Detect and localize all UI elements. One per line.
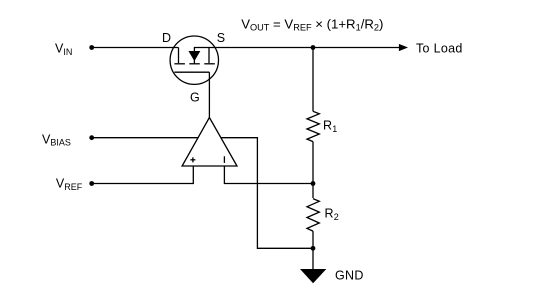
wire Q1 gate to op-amp output xyxy=(208,72,210,117)
svg-text:To Load: To Load xyxy=(416,42,463,56)
svg-text:BIAS: BIAS xyxy=(50,138,71,148)
resistor R2 xyxy=(307,199,319,232)
node VBIAS label xyxy=(42,132,71,147)
op-amp noninverting input plus sign xyxy=(190,157,195,162)
svg-text:IN: IN xyxy=(63,47,72,57)
node VIN terminal dot xyxy=(89,45,94,50)
wire R1 to feedback node xyxy=(312,142,314,184)
svg-text:R: R xyxy=(323,119,332,133)
wire VREF to op-amp noninverting input xyxy=(92,166,194,184)
op-amp U1 xyxy=(182,118,237,167)
wire VOUT node to R1 xyxy=(312,48,314,112)
svg-text:R: R xyxy=(325,207,334,221)
wire Q1 source to VOUT node xyxy=(209,47,313,49)
node VREF terminal dot xyxy=(89,181,94,186)
node VREF label xyxy=(56,177,83,192)
svg-text:S: S xyxy=(217,31,225,45)
wire VIN to Q1 drain xyxy=(92,47,179,49)
svg-text:1: 1 xyxy=(332,124,337,134)
wire op-amp ground pin to GND node xyxy=(221,138,313,249)
svg-text:REF: REF xyxy=(64,182,83,192)
arrowhead to load xyxy=(399,44,408,51)
node feedback junction dot xyxy=(311,181,316,186)
transistor Q1 PMOS pass FET xyxy=(170,36,218,84)
wire VBIAS to op-amp supply pin xyxy=(92,137,198,139)
ground xyxy=(300,269,326,283)
svg-text:GND: GND xyxy=(335,269,364,283)
svg-text:2: 2 xyxy=(334,212,339,222)
wire VOUT node to load arrow xyxy=(313,47,400,49)
wire ground node to GND symbol xyxy=(312,248,314,269)
value label R1 xyxy=(323,119,337,134)
node VOUT junction dot xyxy=(311,45,316,50)
wire feedback node to R2 xyxy=(312,184,314,199)
wire R2 to ground node xyxy=(312,231,314,248)
resistor R1 xyxy=(307,111,319,141)
wire op-amp inverting input to feedback node xyxy=(224,166,313,184)
node VBIAS terminal dot xyxy=(89,135,94,140)
value label R2 xyxy=(325,207,339,222)
svg-text:D: D xyxy=(162,31,171,45)
svg-text:G: G xyxy=(190,90,200,104)
node VIN label xyxy=(55,42,72,57)
op-amp inverting input mark xyxy=(223,156,225,163)
node ground junction dot xyxy=(311,246,316,251)
